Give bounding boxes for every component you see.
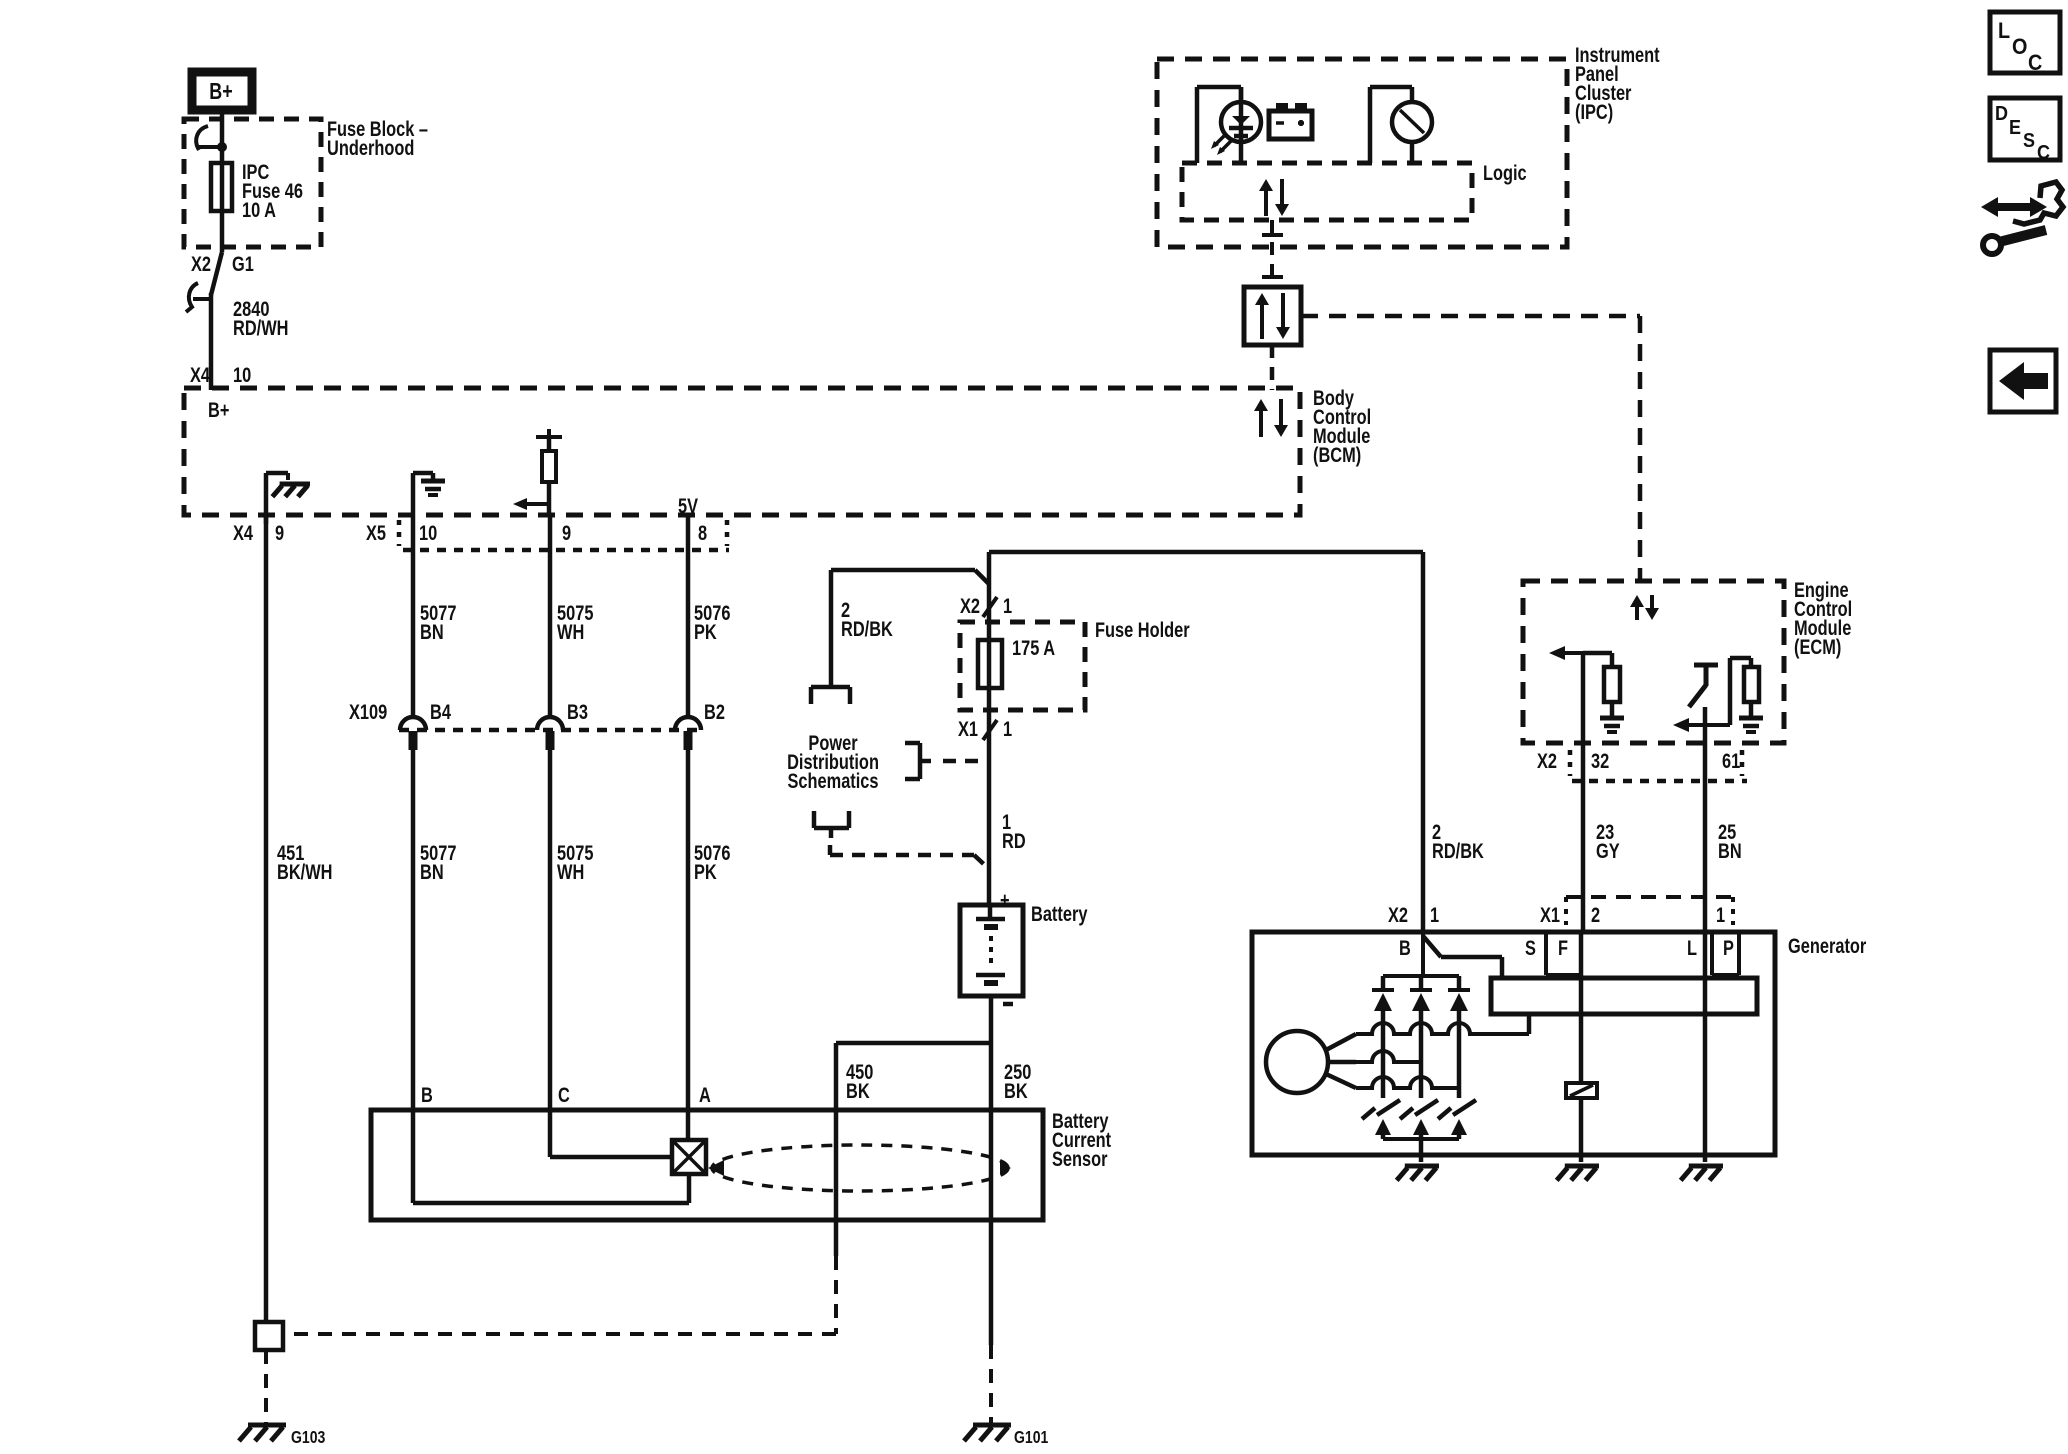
svg-text:Fuse Holder: Fuse Holder: [1095, 618, 1190, 641]
battery B1: [960, 905, 1023, 996]
svg-text:9: 9: [275, 521, 284, 544]
connector X2 pin 1 (fuse holder input): [960, 594, 1012, 617]
label Instrument Panel Cluster (IPC): [1575, 43, 1660, 123]
wire 450 BK (sensor feed): [283, 1043, 836, 1334]
svg-text:(BCM): (BCM): [1313, 443, 1361, 466]
svg-text:X4: X4: [190, 363, 210, 386]
svg-text:GY: GY: [1596, 839, 1620, 862]
label 2840 RD/WH: [233, 297, 288, 339]
charge indicator wire loop: [1197, 87, 1241, 163]
rectifier bridge top rail: [1383, 974, 1459, 978]
serial data link arrows: [1255, 293, 1290, 339]
svg-text:RD: RD: [1002, 829, 1026, 852]
rectifier bridge bottom rail: [1383, 1137, 1459, 1141]
svg-text:X1: X1: [958, 717, 978, 740]
label Engine Control Module (ECM): [1794, 578, 1852, 658]
Fuse Block - Underhood module box: [184, 119, 321, 247]
node B+ (BCM pin): [208, 398, 229, 421]
sensor pin C wire to hall element: [550, 1110, 672, 1157]
svg-text:32: 32: [1591, 749, 1609, 772]
wire generator B to rectifier: [1421, 932, 1425, 976]
label X2 1 (generator B pin): [1388, 903, 1439, 926]
wire 5077 BN upper segment: [411, 515, 416, 717]
battery negative node (-): [1003, 1002, 1013, 1007]
Instrument Panel Cluster (IPC) box: [1157, 59, 1567, 247]
wire 5076 PK upper segment: [686, 515, 691, 717]
svg-text:E: E: [2009, 117, 2021, 139]
connector X109 dashed tie line: [399, 728, 700, 733]
BCM internal chassis ground (pin X4-9): [266, 473, 310, 524]
rectifier diode D4 (bottom row, avalanche): [1362, 1100, 1400, 1139]
wire 25 BN (ECM X2-61 to generator L): [1703, 743, 1708, 932]
svg-text:S: S: [1525, 936, 1536, 959]
svg-text:Schematics: Schematics: [787, 769, 878, 792]
ECM internal ground (left): [1600, 718, 1624, 732]
wire 2 RD/BK stub to power distribution: [831, 570, 989, 686]
label 23 GY: [1596, 820, 1620, 862]
field coil element: [1566, 1083, 1597, 1098]
wire 5075 WH lower segment: [548, 750, 553, 1110]
generator terminal labels B S F L P: [1399, 936, 1734, 959]
svg-text:PK: PK: [694, 620, 717, 643]
label Generator: [1788, 934, 1867, 957]
serial data wire to BCM (dashed): [1270, 345, 1275, 390]
BCM serial data arrows: [1254, 399, 1288, 437]
label connector X4 pin 9: [233, 521, 284, 544]
wire generator B internal to regulator: [1423, 936, 1502, 978]
voltage regulator box: [1491, 978, 1757, 1014]
ECM internal switch: [1689, 665, 1718, 707]
wire 5076 PK lower segment: [686, 750, 691, 1110]
svg-text:BN: BN: [420, 860, 444, 883]
label 5075 WH (upper): [557, 601, 593, 643]
ECM internal resistor (left): [1604, 667, 1620, 718]
label 451 BK/WH: [277, 841, 332, 883]
label sensor pins B C A: [421, 1083, 711, 1106]
svg-text:G101: G101: [1014, 1427, 1048, 1447]
label IPC Fuse 46 10 A: [242, 160, 303, 221]
svg-text:X2: X2: [1537, 749, 1557, 772]
open terminal (to power distribution): [811, 687, 850, 704]
wire 23 GY (ECM X2-32 to generator F): [1581, 743, 1586, 932]
svg-text:PK: PK: [694, 860, 717, 883]
charge indicator emission arrows: [1211, 134, 1232, 155]
rectifier diode D1 (top row): [1372, 976, 1394, 1098]
serial data wire to ECM (dashed): [1301, 316, 1640, 581]
svg-text:(IPC): (IPC): [1575, 100, 1613, 123]
Generator box: [1252, 932, 1775, 1155]
svg-text:B+: B+: [209, 79, 232, 105]
svg-text:8: 8: [698, 521, 707, 544]
BCM internal resistor (pin X5-9): [536, 429, 562, 515]
connector X2 pin G1 (diagonal jog): [211, 252, 222, 295]
ECM internal ground (right): [1739, 718, 1763, 732]
svg-text:L: L: [1687, 936, 1697, 959]
svg-text:X109: X109: [349, 700, 387, 723]
fuse-block internal connector hook: [196, 126, 226, 152]
label 2 RD/BK (power distribution feed): [841, 598, 893, 640]
stator phase winding 3 (humps): [1356, 1077, 1459, 1088]
label X1 2 1 (generator pins): [1540, 903, 1725, 926]
Body Control Module (BCM) box: [184, 388, 1300, 515]
svg-text:C: C: [558, 1083, 570, 1106]
fuse 175 A: [978, 601, 1002, 716]
Engine Control Module (ECM) box: [1523, 581, 1784, 743]
svg-text:10: 10: [233, 363, 251, 386]
ECM field monitor input (pin X2-61): [1673, 707, 1730, 743]
wire 5077 BN lower segment: [411, 750, 416, 1110]
svg-text:Sensor: Sensor: [1052, 1147, 1108, 1170]
splice junction box on 451 BK/WH: [255, 1322, 283, 1350]
fuse F46 (IPC Fuse 46 10 A): [211, 163, 232, 211]
svg-text:X2: X2: [1388, 903, 1408, 926]
wire battery negative junction: [836, 996, 991, 1043]
Fuse Holder box: [960, 622, 1085, 710]
svg-text:BK/WH: BK/WH: [277, 860, 332, 883]
B+ terminal (battery positive feed): [192, 72, 252, 110]
ground G101: [964, 1425, 1048, 1447]
voltmeter gauge: [1392, 102, 1432, 163]
battery positive node (+): [1000, 888, 1010, 911]
ground G103: [239, 1425, 325, 1447]
svg-text:2: 2: [1591, 903, 1600, 926]
label Power Distribution Schematics: [787, 731, 879, 792]
IPC logic serial data arrows: [1259, 179, 1289, 216]
svg-text:X1: X1: [1540, 903, 1560, 926]
svg-text:S: S: [2023, 130, 2035, 152]
svg-text:G103: G103: [291, 1427, 325, 1447]
dashed reference wire to X1 node: [943, 759, 988, 764]
BCM internal ground (pin X5-10): [413, 473, 445, 515]
Battery Current Sensor box: [371, 1110, 1043, 1220]
svg-text:9: 9: [562, 521, 571, 544]
svg-text:WH: WH: [557, 860, 584, 883]
svg-text:BK: BK: [846, 1079, 870, 1102]
generator case ground (lamp terminal): [1681, 1166, 1723, 1180]
label 2 RD/BK: [1432, 820, 1484, 862]
rectifier diode D5 (bottom row, avalanche): [1400, 1100, 1438, 1139]
IPC Logic box: [1182, 163, 1472, 220]
label Fuse Block - Underhood: [327, 117, 428, 159]
battery telltale icon: [1269, 103, 1312, 139]
connector X109 terminal B3: [537, 717, 563, 750]
back navigation icon: [1990, 350, 2056, 412]
charge indicator LED circle: [1221, 87, 1261, 163]
regulator to stator winding wire: [1527, 1014, 1532, 1034]
main B+ bus wire (generator B to fuse holder): [989, 552, 1423, 601]
BCM internal 5V supply (pin X5-8): [678, 494, 698, 517]
svg-text:RD/WH: RD/WH: [233, 316, 288, 339]
svg-text:61: 61: [1722, 749, 1740, 772]
hall-effect element (X box): [672, 1140, 706, 1174]
rectifier diode D3 (top row): [1448, 976, 1470, 1098]
svg-text:X2: X2: [191, 252, 211, 275]
wire 250 BK (to ground G101): [989, 1043, 994, 1423]
DESC navigation icon: [1990, 98, 2060, 164]
wire rectifier to generator case ground: [1419, 1139, 1424, 1162]
svg-text:X4: X4: [233, 521, 253, 544]
dashed reference wire to battery feed: [830, 845, 989, 869]
svg-text:Logic: Logic: [1483, 161, 1527, 184]
svg-text:X2: X2: [960, 594, 980, 617]
svg-text:1: 1: [1430, 903, 1439, 926]
svg-text:B: B: [1399, 936, 1411, 959]
label X4 10: [190, 363, 251, 386]
svg-text:Generator: Generator: [1788, 934, 1867, 957]
svg-text:L: L: [1998, 19, 2010, 43]
stator winding rotor circle: [1266, 1031, 1328, 1093]
label 175 A: [1012, 636, 1055, 659]
wire 2 RD/BK (bus to generator B): [1421, 552, 1426, 932]
svg-text:A: A: [699, 1083, 711, 1106]
svg-text:B2: B2: [704, 700, 725, 723]
stator phase fan wires: [1326, 1034, 1356, 1088]
generator case ground (field): [1557, 1166, 1599, 1180]
svg-text:WH: WH: [557, 620, 584, 643]
ECM internal pull-up resistor (right): [1730, 658, 1759, 725]
svg-text:B: B: [421, 1083, 433, 1106]
stator phase winding 2 (humps): [1356, 1051, 1421, 1062]
LOC navigation icon: [1990, 12, 2060, 75]
svg-text:G1: G1: [232, 252, 254, 275]
label X2 G1: [191, 252, 254, 275]
svg-text:Battery: Battery: [1031, 902, 1088, 925]
svg-text:F: F: [1558, 936, 1568, 959]
generator terminal slot dividers: [1546, 932, 1739, 975]
connector X109 terminal B2: [675, 717, 701, 750]
power distribution lower bracket: [814, 811, 849, 838]
svg-text:10 A: 10 A: [242, 198, 276, 221]
sensor pin B wire to hall element: [413, 1110, 689, 1203]
label connector X5 pins 10 9 8: [366, 521, 707, 544]
rectifier diode D6 (bottom row, avalanche): [1438, 1100, 1476, 1139]
label X109 B4 B3 B2: [349, 700, 725, 723]
svg-text:RD/BK: RD/BK: [841, 617, 893, 640]
ECM generator-turn-on signal tap (pin X2-32): [1549, 646, 1612, 743]
wire generator L internal: [1703, 932, 1708, 1162]
flux loop dashed ellipse: [708, 1145, 1011, 1191]
svg-text:+: +: [1000, 888, 1010, 911]
svg-text:X5: X5: [366, 521, 386, 544]
label Body Control Module (BCM): [1313, 386, 1371, 466]
connector hook at X2/G1: [186, 283, 211, 312]
label 5075 WH (lower): [557, 841, 593, 883]
label Battery: [1031, 902, 1088, 925]
wire 2840 RD/WH to BCM connector X4 pin 10: [209, 293, 214, 390]
wire B+ terminal to Fuse Block: [220, 111, 225, 165]
svg-text:BN: BN: [420, 620, 444, 643]
svg-text:Underhood: Underhood: [327, 136, 414, 159]
svg-text:C: C: [2037, 142, 2050, 164]
svg-text:RD/BK: RD/BK: [1432, 839, 1484, 862]
svg-text:(ECM): (ECM): [1794, 635, 1841, 658]
gauge wire loop: [1370, 87, 1412, 163]
label Logic: [1483, 161, 1527, 184]
connector X1 (generator) box: [1566, 897, 1733, 925]
wire 1 RD (fuse holder to battery +): [987, 716, 992, 905]
label 250 BK: [1004, 1060, 1031, 1102]
BCM internal signal arrow at resistor: [513, 498, 549, 510]
svg-text:5V: 5V: [678, 494, 698, 517]
serial data wire IPC to data-link box: [1262, 220, 1283, 287]
svg-text:10: 10: [419, 521, 437, 544]
connector X5 box: [399, 520, 729, 550]
svg-text:1: 1: [1003, 594, 1012, 617]
svg-text:BK: BK: [1004, 1079, 1028, 1102]
sensor pin A wire to hall element: [686, 1110, 691, 1140]
power distribution bracket: [905, 743, 931, 779]
label 5077 BN (lower): [420, 841, 456, 883]
wire fuse to connector X2 pin G1: [220, 211, 225, 252]
stator phase winding 1 (humps): [1356, 1023, 1529, 1034]
svg-text:B+: B+: [208, 398, 229, 421]
connector X109 terminal B4: [400, 717, 426, 750]
svg-text:1: 1: [1716, 903, 1725, 926]
wire field coil to ground: [1579, 1098, 1584, 1162]
label 1 RD: [1002, 810, 1026, 852]
svg-text:O: O: [2012, 35, 2027, 59]
label X2 32 61 (ECM pins): [1537, 749, 1740, 772]
service info icon (arrows and wrench): [1981, 182, 2063, 254]
svg-text:P: P: [1723, 936, 1734, 959]
label 5076 PK (upper): [694, 601, 730, 643]
svg-text:C: C: [2028, 51, 2042, 75]
label 5076 PK (lower): [694, 841, 730, 883]
label 450 BK: [846, 1060, 873, 1102]
ECM serial data arrows: [1630, 595, 1659, 620]
wire 451 BK/WH from BCM X4-9: [264, 515, 269, 1322]
svg-text:BN: BN: [1718, 839, 1742, 862]
wire 5075 WH upper segment: [548, 515, 553, 717]
label 25 BN: [1718, 820, 1742, 862]
svg-text:1: 1: [1003, 717, 1012, 740]
connector X1 pin 1 (fuse holder output): [958, 717, 1012, 740]
generator case ground (rectifier): [1397, 1166, 1439, 1180]
connector X2 (ECM) box: [1570, 750, 1747, 781]
svg-text:175 A: 175 A: [1012, 636, 1055, 659]
svg-text:D: D: [1995, 103, 2008, 125]
svg-text:B3: B3: [567, 700, 588, 723]
svg-text:B4: B4: [430, 700, 451, 723]
wire 451 BK/WH to ground G103: [264, 1350, 268, 1423]
label Battery Current Sensor: [1052, 1109, 1112, 1170]
serial data link box: [1244, 287, 1301, 345]
label Fuse Holder: [1095, 618, 1190, 641]
wire generator F internal: [1579, 932, 1584, 1083]
label 5077 BN (upper): [420, 601, 456, 643]
rectifier diode D2 (top row): [1410, 976, 1432, 1098]
